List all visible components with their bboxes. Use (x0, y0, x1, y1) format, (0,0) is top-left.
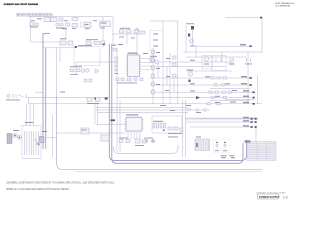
wire horizontal y112.5 (120, 112, 188, 114)
label smudges (31, 20, 237, 137)
wire vertical node B (102, 17, 104, 48)
wire horizontal y100 (210, 100, 250, 102)
svg-text:1-2: 1-2 (283, 195, 288, 199)
wire horizontal y133 (57, 132, 126, 134)
wire stub x26 (25, 94, 27, 98)
wire bottom parallel (75, 171, 262, 173)
fuse component on rail (36, 137, 44, 145)
wire horizontal y97 right (117, 97, 251, 99)
bus band y118 (185, 117, 258, 120)
wire vertical x256 (255, 127, 257, 143)
resistor R3 (72, 18, 78, 28)
inline net labels row y85 (214, 84, 224, 86)
svg-text:POWER SUPPLY: POWER SUPPLY (259, 195, 280, 199)
wire horizontal y85 (150, 84, 251, 86)
node dot right top (260, 17, 262, 19)
mid row amp cluster (70, 66, 99, 82)
diode column mid (166, 56, 176, 77)
transistor cluster Q3 (186, 23, 195, 46)
servo cluster frame (152, 116, 182, 133)
wire vertical x120 (119, 100, 121, 152)
wire vertical x170 (169, 53, 171, 104)
wire horizontal y46 (195, 45, 251, 47)
junction dot small (94, 98, 96, 100)
wire horizontal y62 right (150, 61, 232, 63)
net labels bottom right (221, 155, 236, 158)
wire U1 right pin links (141, 58, 157, 69)
wire vertical x222 (221, 52, 223, 62)
connector legend row (17, 13, 53, 16)
wire box mid-right faint (150, 31, 163, 53)
mech labels (13, 122, 47, 132)
pin header y97 (243, 96, 255, 99)
pin header y85 (241, 83, 252, 86)
wire vertical x262 (261, 18, 263, 54)
wire box top mid-left (76, 61, 117, 63)
transistor Q5 (187, 70, 193, 83)
pin header y118 (243, 117, 257, 120)
wire vertical x196 (195, 46, 197, 57)
wire stub y92 left (35, 91, 43, 93)
ground bus bottom (57, 95, 262, 170)
resistor row low (60, 38, 73, 45)
wire horizontal y71 (186, 70, 232, 72)
inline net labels row y97 (211, 97, 226, 99)
web verticals mid-right (158, 62, 174, 92)
sensor symbols (188, 108, 207, 111)
wire horizontal y97 left (26, 97, 111, 99)
wire vertical x60 (59, 48, 61, 63)
wire top border (28, 16, 113, 18)
IC U2 pin drops (128, 133, 140, 140)
wire horizontal y21 (150, 20, 178, 22)
inline net labels row y78 (211, 77, 226, 79)
wire vertical x177.8 (177, 21, 179, 104)
wire horizontal y92 (150, 91, 254, 93)
wire horizontal y122 (186, 121, 251, 123)
capacitor cluster below U2 (135, 139, 146, 146)
inline net labels row y92 (209, 91, 231, 93)
wire horizontal y110 (117, 109, 210, 111)
sensor box left of rail (101, 135, 109, 141)
connector table CN1 (245, 140, 277, 160)
wire vertical x117 (116, 48, 118, 153)
switch arm (35, 139, 41, 146)
regulator IC3 (100, 21, 111, 27)
mechanism assembly frame (22, 126, 41, 159)
wire rail entry stub (43, 32, 50, 34)
wire horizontal y57 (186, 56, 246, 58)
power input connector (6, 94, 24, 100)
power rail thick loop outer (109, 44, 246, 160)
wire box bottom left block (31, 41, 61, 43)
wire vertical x56.7 (56, 48, 58, 96)
wire vertical x76 (75, 62, 77, 75)
resistor column left of U1 (115, 57, 119, 74)
oscillator blob (112, 28, 140, 44)
svg-text:4-75 SERIES SM: 4-75 SERIES SM (276, 6, 291, 8)
wire vertical x185.5 (185, 100, 187, 157)
page label box (258, 194, 280, 199)
node junction dark (111, 119, 116, 121)
svg-text:SCHEMATIC AND CIRCUIT DIAGRAMS: SCHEMATIC AND CIRCUIT DIAGRAMS (4, 3, 39, 6)
wire horizontal y99 short (225, 98, 254, 100)
transistor pair on mech (13, 133, 22, 139)
wire vertical x163 (162, 21, 164, 104)
wire vertical x232 (231, 57, 233, 66)
wire vertical x66 (65, 28, 67, 40)
inline net labels row y103 (207, 103, 220, 105)
svg-text:NOTE: ALL VOLTAGES MEASURED WI: NOTE: ALL VOLTAGES MEASURED WITH DIGITAL… (7, 188, 70, 191)
ribbon cable block (195, 139, 210, 151)
wire vertical x182.5 (182, 100, 184, 157)
relay cluster (87, 98, 100, 104)
power rail thick loop inner (112, 44, 243, 163)
wire vertical x257 (257, 75, 259, 104)
jumper pair left (119, 138, 130, 143)
wire horizontal y107.5 (117, 107, 188, 109)
wire vertical x52.5 (52, 115, 54, 157)
wire horizontal y17.5 right (225, 17, 261, 19)
wire horizontal y66 (150, 66, 225, 68)
junction arrow (196, 96, 200, 99)
resistor array RA1 (153, 121, 166, 131)
wire horizontal y103.8 long (29, 103, 263, 105)
pin header y127 (243, 125, 257, 128)
wire vertical x81 (80, 21, 82, 28)
resistor chain column (152, 48, 161, 104)
wire drops to U2 (95, 104, 98, 125)
wire vertical x137 (136, 28, 138, 56)
wire horizontal y52 (183, 51, 262, 53)
wire stub x28.5 (28, 98, 30, 104)
wire horizontal y88 (210, 88, 250, 90)
motor socket (7, 134, 12, 144)
preamp box (74, 45, 100, 65)
power rail B+ thick (left pair) (43, 33, 46, 149)
jumper pair right (144, 138, 155, 143)
driver cluster (168, 127, 183, 137)
IC U1 (126, 53, 141, 77)
capacitor C10 C11 (229, 58, 235, 64)
resistor pair R1 R2 (37, 18, 63, 22)
pin header y78 (241, 76, 252, 79)
wire horizontal y78 (150, 77, 251, 79)
motor M1 (204, 57, 221, 65)
pin header y46 (240, 44, 252, 47)
inner frame bottom U (114, 145, 179, 154)
wire left box edge (30, 17, 32, 43)
wire drops to mech (27, 104, 34, 126)
mecha sub box (81, 128, 89, 134)
wire mech link (46, 136, 57, 138)
wire horizontal y47.5 (43, 47, 74, 49)
capacitor C2 (84, 22, 91, 28)
diode cluster D1 (120, 28, 146, 34)
capacitor cluster C1 (30, 23, 39, 28)
transistor pair Q1 Q2 (56, 23, 70, 29)
wire horizontal y124.5 (96, 124, 126, 126)
IC U2 (125, 114, 144, 132)
wire horizontal y118.7 (186, 118, 256, 120)
pin header y92 (243, 90, 255, 93)
mechanism ribbon (25, 131, 39, 155)
wire horizontal y127 (190, 126, 251, 128)
crystal X1 (150, 56, 159, 64)
pin header y122 (243, 120, 257, 123)
capacitor C12 C13 (245, 58, 252, 64)
pin header y103 (243, 102, 255, 105)
wire vertical x186 (185, 25, 187, 52)
dashed option box (214, 139, 231, 153)
wire vertical node C (112, 17, 114, 45)
filter cluster L1 (86, 39, 105, 45)
junction dot power row (105, 97, 108, 99)
capacitor row below U1 (116, 78, 143, 83)
motor box frame (202, 56, 226, 71)
wire vertical x248 (247, 52, 249, 104)
svg-text:CAUTION: COMPONENTS IDENTIFIED: CAUTION: COMPONENTS IDENTIFIED BY THIS M… (7, 181, 116, 184)
wire horizontal y107 left ext (96, 108, 120, 113)
